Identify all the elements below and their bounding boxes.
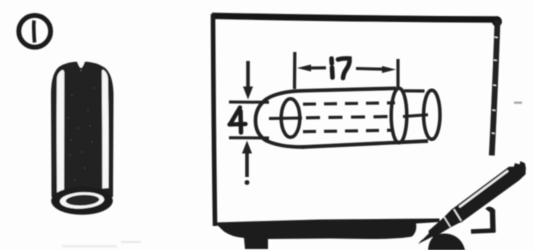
dimension 4: top extension line (229, 101, 269, 104)
drawn object: nose tip ellipse (281, 99, 300, 138)
dimension 4: bottom arrow (pointing up) (242, 141, 252, 154)
paper sheet top edge (212, 16, 498, 20)
drawn object: middle line between rims (403, 115, 428, 117)
dimension 4: bottom extension line (229, 136, 269, 139)
drawn object: hidden line row 1 (dashed) (303, 103, 395, 104)
drawn object on paper: nose outline (256, 91, 305, 147)
drawn object: center line through nose (269, 116, 302, 120)
shadow blob under pen tip (428, 233, 465, 250)
drawn object: far rim ellipse (424, 90, 440, 139)
drawn object: body top line (301, 88, 396, 91)
dimension 17: right arrow (382, 66, 396, 73)
drawn object: body bottom line (303, 141, 428, 147)
drawn object: hidden line row 3 (dashed) (303, 130, 394, 132)
dimension 17: left extension line (293, 52, 296, 89)
paper sheet top-right corner blob (492, 16, 502, 26)
cap-shaped tube object (standing, left) (51, 60, 114, 215)
scan speck marks (514, 102, 522, 104)
pen (413, 158, 531, 250)
paper sheet right edge (492, 20, 498, 156)
bottom-right paper corner mark (471, 209, 495, 232)
dimension 17: left arrow (297, 65, 311, 72)
dimension 4: label "4" (230, 108, 246, 133)
paper sheet left edge (213, 14, 215, 226)
drawn object: near rim ellipse (391, 88, 407, 143)
dimension 4: top arrow (pointing down) (246, 61, 250, 88)
circled step number 1 (19, 15, 51, 47)
dimension 17: label "17" (332, 58, 350, 78)
drawn object: hidden center line (dashed) (306, 117, 393, 118)
dimension 17: right extension line (396, 59, 399, 89)
drawn object: top connector line between rims (404, 89, 425, 92)
shadow band under paper bottom edge (215, 219, 440, 250)
